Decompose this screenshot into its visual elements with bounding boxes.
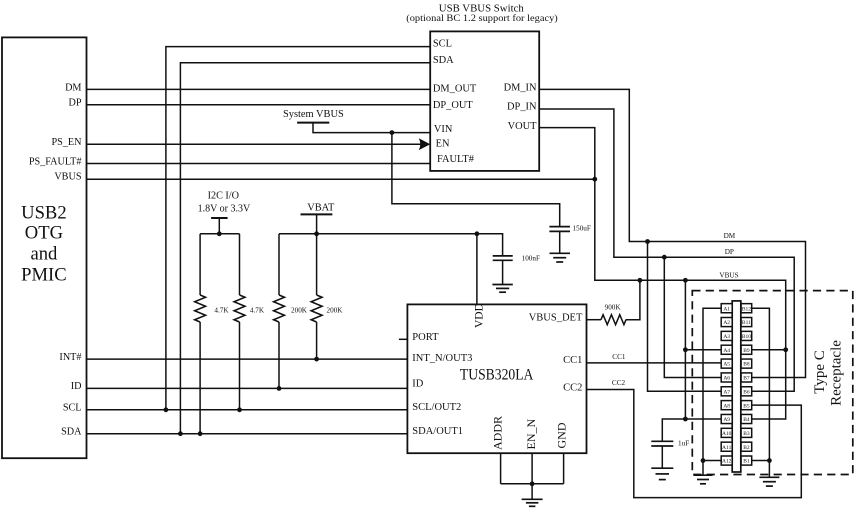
junction DP/A6	[662, 255, 667, 260]
svg-text:150uF: 150uF	[573, 224, 591, 232]
svg-text:B8: B8	[743, 362, 750, 368]
junction R2/SCL	[237, 407, 242, 412]
wire R2 to SCL rail	[239, 322, 241, 410]
wire to R2 top	[239, 234, 241, 295]
svg-text:B12: B12	[742, 306, 751, 312]
wire PS_FAULT# (PMIC to FAULT#)	[87, 163, 431, 165]
junction A12 ground	[701, 458, 706, 463]
svg-text:A12: A12	[722, 459, 732, 465]
svg-text:System VBUS: System VBUS	[283, 109, 344, 120]
wire to TUSB ground	[531, 484, 533, 500]
block U1 TUSB320LA	[407, 303, 586, 453]
svg-text:SDA: SDA	[61, 427, 82, 438]
svg-text:A2: A2	[723, 320, 730, 326]
ground under 100nF	[492, 285, 512, 293]
junction B1 ground	[767, 458, 772, 463]
wire R4 drop from VBAT rail	[316, 234, 318, 295]
svg-text:OTG: OTG	[25, 223, 63, 244]
wire to R1 top	[199, 234, 201, 295]
node I2C IO supply	[198, 190, 251, 218]
svg-text:B4: B4	[743, 417, 750, 423]
svg-text:A10: A10	[722, 431, 732, 437]
ground under TUSB	[522, 499, 543, 506]
svg-text:(optional BC 1.2 support for l: (optional BC 1.2 support for legacy)	[406, 13, 558, 24]
wire ID rail	[87, 387, 408, 389]
wire VIN node down to 150uF	[392, 133, 560, 227]
capacitor C4 1uF	[651, 440, 689, 469]
capacitor C2 100nF	[493, 254, 540, 284]
junction VDD node	[475, 231, 480, 236]
svg-text:CC1: CC1	[612, 353, 626, 361]
wire PS_EN (PMIC to EN)	[87, 143, 422, 145]
svg-text:CC1: CC1	[563, 355, 582, 366]
wire B12 to chassis ground	[752, 308, 770, 477]
wire R1 to SDA rail	[199, 322, 201, 434]
svg-text:SCL: SCL	[63, 403, 82, 414]
wire R3 to ID rail	[278, 322, 280, 388]
svg-text:ADDR: ADDR	[490, 416, 504, 450]
svg-text:VBUS: VBUS	[719, 271, 738, 279]
junction VBUS/B9	[783, 347, 788, 352]
wire R3 drop from VBAT rail	[278, 234, 280, 295]
svg-text:VDD: VDD	[474, 303, 486, 328]
svg-text:PORT: PORT	[412, 332, 439, 343]
junction R3/ID	[277, 386, 282, 391]
svg-text:INT_N/OUT3: INT_N/OUT3	[412, 353, 472, 364]
junction VIN node	[390, 130, 395, 135]
svg-text:SDA: SDA	[433, 55, 454, 66]
svg-text:B11: B11	[742, 320, 751, 326]
resistor R2 4.7K	[234, 295, 265, 322]
svg-text:B6: B6	[743, 389, 750, 395]
wire SDA (switch SDA down to SDA rail)	[180, 63, 430, 434]
node System VBUS	[283, 109, 344, 123]
wire System VBUS to VIN	[313, 123, 430, 133]
svg-text:A9: A9	[723, 417, 730, 423]
wire DP (PMIC to DP_OUT)	[87, 104, 431, 106]
wire DM (PMIC to DM_OUT)	[87, 88, 431, 90]
svg-text:200K: 200K	[291, 306, 308, 314]
junction A9/1uF	[683, 417, 688, 422]
svg-text:VIN: VIN	[434, 124, 453, 135]
svg-text:SDA/OUT1: SDA/OUT1	[412, 426, 463, 437]
wire A9 to 1uF	[662, 419, 685, 441]
ground under B1	[759, 477, 779, 486]
svg-text:DP_OUT: DP_OUT	[433, 100, 473, 111]
wire INT# rail	[87, 358, 408, 360]
wire VDD node to 100nF	[477, 234, 503, 256]
arrowhead into EN pin	[419, 138, 430, 150]
svg-text:EN_N: EN_N	[524, 419, 538, 450]
svg-text:A11: A11	[722, 445, 732, 451]
svg-text:4.7K: 4.7K	[214, 306, 229, 314]
svg-text:A3: A3	[723, 334, 730, 340]
wire VBUS down to A9	[685, 280, 721, 419]
wire R4 to INT_N rail	[316, 322, 318, 359]
wire VBAT rail to VDD	[279, 234, 477, 305]
junction VBUS/A-side	[683, 278, 688, 283]
wire A12 stub	[703, 460, 721, 462]
svg-text:B7: B7	[743, 376, 750, 382]
svg-text:DP_IN: DP_IN	[507, 101, 537, 112]
svg-text:1.8V or 3.3V: 1.8V or 3.3V	[198, 203, 251, 214]
ground under 1uF	[651, 468, 673, 479]
svg-text:B3: B3	[743, 431, 750, 437]
svg-text:B1: B1	[743, 459, 750, 465]
svg-text:VBUS: VBUS	[54, 171, 82, 182]
wire SCL rail	[87, 409, 408, 411]
junction VBUS/VOUT	[592, 177, 597, 182]
wire SDA rail	[87, 433, 408, 435]
svg-text:PS_EN: PS_EN	[51, 137, 82, 148]
svg-text:VBUS_DET: VBUS_DET	[529, 313, 583, 324]
svg-text:A6: A6	[723, 376, 730, 382]
wire B1 stub	[752, 460, 770, 462]
ground under 150uF	[550, 253, 571, 262]
junction A4	[683, 347, 688, 352]
connector J1 body bar	[732, 301, 741, 472]
connector pin labels A-side	[722, 306, 732, 464]
resistor R4 200K	[311, 295, 343, 322]
wire DP_IN rail (switch to B6)	[539, 109, 794, 391]
resistor R3 200K	[274, 295, 308, 322]
junction R4/INT_N	[314, 357, 319, 362]
Type C receptacle dashed boundary	[692, 291, 853, 475]
svg-text:SCL: SCL	[433, 39, 452, 50]
svg-text:PMIC: PMIC	[21, 265, 66, 286]
svg-text:I2C I/O: I2C I/O	[208, 190, 239, 201]
svg-text:DP: DP	[68, 98, 81, 109]
svg-text:SCL/OUT2: SCL/OUT2	[412, 402, 461, 413]
svg-text:100nF: 100nF	[522, 254, 540, 262]
svg-text:ID: ID	[71, 381, 82, 392]
wire A1 to chassis ground	[703, 308, 721, 475]
svg-text:B9: B9	[743, 348, 750, 354]
svg-text:Receptacle: Receptacle	[829, 340, 845, 406]
junction R1/SDA	[198, 431, 203, 436]
svg-text:A1: A1	[723, 306, 730, 312]
connector pin boxes A-side	[721, 304, 732, 465]
svg-text:A5: A5	[723, 362, 730, 368]
junction VBUS/900K	[638, 278, 643, 283]
wire DM to A7	[648, 242, 722, 392]
svg-text:DM: DM	[65, 82, 81, 93]
svg-text:A7: A7	[723, 389, 730, 395]
wire VBUS_DET to 900K	[587, 319, 602, 321]
svg-text:EN: EN	[436, 139, 450, 150]
svg-text:1uF: 1uF	[678, 440, 689, 448]
wire TUSB bottom pins ADDR/EN_N/GND	[501, 453, 564, 484]
svg-text:VOUT: VOUT	[508, 121, 538, 132]
wire PORT stub	[399, 338, 408, 340]
junction VBAT rail	[314, 231, 319, 236]
wire to A4	[685, 349, 721, 351]
wire VBUS (PMIC to VOUT vertical)	[87, 178, 595, 180]
wire 900K to VBUS rail	[626, 280, 640, 319]
wire DP to A6	[664, 257, 721, 377]
svg-text:Type C: Type C	[812, 350, 828, 394]
junction DM/A7	[645, 239, 650, 244]
svg-text:DM_IN: DM_IN	[504, 82, 537, 93]
svg-text:VBAT: VBAT	[307, 202, 335, 213]
junction I2C supply	[217, 231, 222, 236]
wire CC1 to A5	[587, 362, 722, 364]
svg-text:4.7K: 4.7K	[250, 306, 265, 314]
svg-text:CC2: CC2	[563, 383, 582, 394]
svg-text:USB2: USB2	[21, 203, 66, 224]
svg-text:DM_OUT: DM_OUT	[433, 84, 477, 95]
svg-text:PS_FAULT#: PS_FAULT#	[29, 156, 82, 167]
svg-text:CC2: CC2	[612, 379, 626, 387]
svg-text:TUSB320LA: TUSB320LA	[460, 366, 534, 383]
block U3 USB2 OTG and PMIC	[2, 37, 87, 458]
svg-text:200K: 200K	[327, 306, 344, 314]
connector pin labels B-side	[742, 306, 751, 464]
svg-text:B10: B10	[742, 334, 751, 340]
ground under A12	[694, 475, 713, 484]
wire VBAT drop	[316, 214, 318, 233]
svg-text:GND: GND	[554, 422, 568, 448]
svg-text:A4: A4	[723, 348, 730, 354]
junction SDA rail	[178, 431, 183, 436]
svg-text:and: and	[30, 244, 58, 265]
wire CC2 to B5	[587, 390, 802, 498]
resistor R1 4.7K	[195, 295, 230, 322]
wire I2C supply to pullups	[218, 218, 220, 234]
svg-text:DM: DM	[724, 232, 736, 240]
resistor R5 900K	[601, 304, 626, 325]
svg-text:DP: DP	[725, 248, 734, 256]
svg-text:B5: B5	[743, 403, 750, 409]
wire SCL (switch SCL down to SCL rail)	[166, 47, 430, 410]
junction SCL rail	[164, 407, 169, 412]
junction TUSB ground	[530, 481, 535, 486]
wire DM_IN rail (switch to B7)	[539, 89, 805, 377]
wire pullup header	[200, 233, 239, 235]
svg-text:ID: ID	[412, 379, 423, 390]
connector pin boxes B-side	[741, 304, 752, 465]
svg-text:INT#: INT#	[59, 352, 81, 363]
capacitor C1 150uF	[549, 224, 590, 253]
svg-text:B2: B2	[743, 445, 750, 451]
svg-text:900K: 900K	[605, 304, 622, 312]
block U2 USB VBUS Switch	[406, 2, 558, 171]
node VBAT supply	[301, 202, 336, 214]
svg-text:FAULT#: FAULT#	[437, 154, 474, 165]
wire VBUS to B9	[752, 349, 786, 351]
wire VOUT to VBUS rail	[539, 128, 786, 419]
svg-text:A8: A8	[723, 403, 730, 409]
